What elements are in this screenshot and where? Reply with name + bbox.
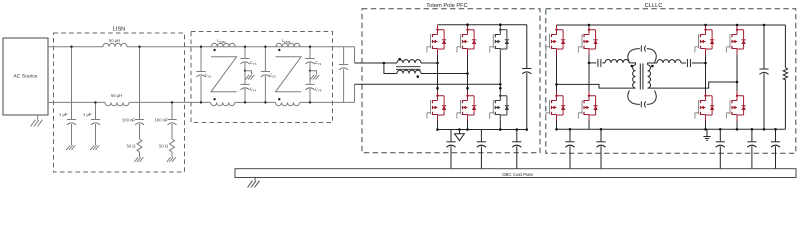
wire: primary bottom lead to leg A <box>557 84 636 88</box>
boost inductor winding 2 <box>397 70 421 78</box>
EMI filter dashed box <box>191 32 333 123</box>
svg-text:50 µH: 50 µH <box>109 38 120 43</box>
wire: line L into boost inductor <box>355 62 398 64</box>
choke LCM1 coupling Z <box>211 57 237 92</box>
capacitor CY4 <box>240 71 256 104</box>
ground below cold plate <box>248 178 260 188</box>
transistor QB1 (CLLLC primary top right) <box>578 25 597 55</box>
boost inductor winding 1 <box>397 58 421 63</box>
svg-text:100 nF: 100 nF <box>122 118 135 123</box>
parasitic capacitor CLLLC to cold plate 5 <box>771 129 780 168</box>
ground for 1uF #1 <box>66 145 75 150</box>
svg-text:50 Ω: 50 Ω <box>127 144 136 149</box>
Totem Pole PFC dashed box <box>362 9 540 153</box>
choke LCM1 top winding <box>211 38 235 51</box>
capacitor CY3 <box>240 46 256 71</box>
parasitic capacitor PFC to cold plate 2 <box>477 130 486 169</box>
resonant capacitor secondary <box>687 59 690 67</box>
svg-text:AC Source: AC Source <box>13 74 37 80</box>
wire: secondary bottom lead to leg D <box>648 82 737 88</box>
svg-text:1 µF: 1 µF <box>83 112 92 117</box>
wire: LISN top rail <box>48 46 355 48</box>
LISN dashed box <box>54 33 185 172</box>
transistor Q1 (PFC fast top 1) <box>427 25 446 55</box>
svg-text:LISN: LISN <box>113 27 125 33</box>
transistor Q6 (PFC slow bottom) <box>490 91 509 121</box>
transistor QD2 (CLLLC secondary bottom right) <box>726 91 745 121</box>
node: PFC bottom bus junctions <box>436 128 528 131</box>
wire: CLLLC leg B <box>588 55 590 129</box>
svg-text:50 µH: 50 µH <box>111 93 122 98</box>
wire: winding1 to leg1 <box>421 62 438 64</box>
CLLLC earth ground <box>703 129 710 140</box>
transistor QA1 (CLLLC primary top left) <box>546 25 565 55</box>
parasitic capacitor CLLLC to cold plate 1 <box>565 129 574 168</box>
ground for chain #1 <box>134 157 143 162</box>
transistor Q3 (PFC fast bottom 1) <box>427 91 446 121</box>
svg-text:100 nF: 100 nF <box>154 118 167 123</box>
node: PFC lower switch drain junctions <box>436 87 501 90</box>
transistor QC2 (CLLLC secondary bottom left) <box>695 91 714 121</box>
parasitic capacitor PFC to cold plate 1 <box>446 130 455 169</box>
OBC cold plate <box>235 169 796 178</box>
parasitic capacitor CLLLC to cold plate 4 <box>747 129 756 168</box>
wire: CLLLC leg C <box>705 55 707 129</box>
parasitic arc bottom with capacitor <box>628 91 656 108</box>
wire: secondary top lead <box>648 63 657 65</box>
ground for chain #2 <box>167 157 176 162</box>
node: CLLLC bottom bus junctions <box>555 128 777 131</box>
resistor 50 ohm #2 <box>159 139 174 157</box>
parasitic capacitor CLLLC to cold plate 2 <box>596 129 605 168</box>
transformer primary winding <box>633 65 636 88</box>
transistor QC1 (CLLLC secondary top left) <box>695 25 714 55</box>
DC link capacitor <box>522 25 531 130</box>
parasitic capacitor PFC to cold plate 3 <box>512 130 521 169</box>
capacitor CY2 <box>305 71 321 104</box>
boost inductor core <box>396 67 421 70</box>
wire <box>602 62 605 64</box>
transistor Q2 (PFC fast top 2) <box>457 25 476 55</box>
resonant capacitor primary <box>598 59 601 67</box>
wire: leg B midpoint to resonant tank <box>589 62 596 64</box>
resonant inductor secondary <box>657 60 681 63</box>
wire to leg C midpoint <box>692 62 706 64</box>
wire: PFC slow leg <box>499 55 501 130</box>
wire: split to lower winding <box>384 63 397 74</box>
choke LCM2 top winding <box>276 38 300 51</box>
capacitor 100nF #2 <box>154 101 176 139</box>
svg-text:CLLLC: CLLLC <box>645 3 663 9</box>
inductor 50uH top <box>103 38 127 47</box>
wire: LISN bottom rail <box>48 101 355 103</box>
transformer secondary winding <box>648 65 651 88</box>
wire to transformer primary <box>629 63 636 65</box>
input capacitor after EMI filter <box>339 47 348 103</box>
PFC chassis ground symbol (open arrow) <box>455 130 465 141</box>
transistor Q5 (PFC slow top) <box>490 25 509 55</box>
wire: CLLLC leg A <box>556 55 558 129</box>
earth stub stage 1 <box>244 70 255 80</box>
wire: PFC top bus <box>438 24 528 26</box>
wire: PFC leg 2 <box>467 55 469 130</box>
svg-text:OBC Cold Plate: OBC Cold Plate <box>502 172 534 177</box>
node: split <box>383 62 386 65</box>
capacitor 1uF #1 <box>59 46 76 146</box>
wire: PFC bottom bus <box>438 129 528 131</box>
ground below AC source <box>31 115 43 127</box>
transformer core <box>640 64 643 90</box>
node: CLLLC top bus junctions <box>588 24 766 27</box>
capacitor 100nF #1 <box>122 46 144 140</box>
resistor 50 ohm #1 <box>127 139 142 157</box>
AC source box <box>3 38 48 115</box>
capacitor CX1 <box>196 46 211 104</box>
transistor QA2 (CLLLC primary bottom left) <box>546 91 565 121</box>
capacitor CX2 <box>261 46 276 104</box>
wire <box>681 62 686 64</box>
resonant inductor primary <box>605 60 629 63</box>
wire: CLLLC bottom bus <box>557 128 786 130</box>
earth stub stage 2 <box>309 70 320 80</box>
svg-text:50 Ω: 50 Ω <box>159 144 168 149</box>
choke LCM1 bottom winding <box>211 98 235 106</box>
CLLLC dashed box <box>546 9 796 154</box>
choke LCM2 coupling Z <box>276 57 302 92</box>
wire: CLLLC leg D <box>736 55 738 129</box>
capacitor 1uF #2 <box>83 101 100 145</box>
wire: CLLLC top bus <box>557 24 786 26</box>
parasitic arc top with capacitor <box>628 46 656 63</box>
choke LCM2 bottom winding <box>276 98 300 106</box>
transistor QD1 (CLLLC secondary top right) <box>726 25 745 55</box>
ground for 1uF #2 <box>90 145 99 150</box>
capacitor CY1 <box>305 46 321 71</box>
node: PFC top bus junctions <box>466 23 501 26</box>
wire: neutral to slow leg <box>355 83 501 85</box>
svg-text:Totem Pole PFC: Totem Pole PFC <box>426 2 467 9</box>
load resistor <box>783 25 787 129</box>
wire: jog from rails into PFC lines <box>354 47 356 103</box>
svg-text:1 µF: 1 µF <box>59 112 68 117</box>
parasitic capacitor CLLLC to cold plate 3 <box>716 129 725 168</box>
wire: winding2 to leg2 <box>421 73 468 75</box>
transistor QB2 (CLLLC primary bottom right) <box>578 91 597 121</box>
inductor 50uH bottom <box>105 93 129 106</box>
wire: PFC leg 1 <box>437 55 439 130</box>
output capacitor <box>759 25 768 129</box>
transistor Q4 (PFC fast bottom 2) <box>457 91 476 121</box>
